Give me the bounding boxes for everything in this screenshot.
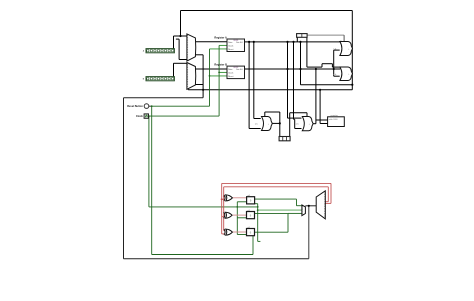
svg-text:addr 0000: addr 0000 — [329, 119, 338, 121]
svg-text:Out 4:0: Out 4:0 — [236, 68, 243, 71]
svg-text:Reset: Reset — [228, 48, 234, 51]
svg-text:Out 4:0: Out 4:0 — [236, 41, 243, 44]
svg-text:Register A: Register A — [214, 36, 227, 39]
svg-text:Reset Button: Reset Button — [127, 105, 143, 108]
svg-text:Register B: Register B — [214, 63, 227, 66]
svg-text:Clock: Clock — [136, 115, 143, 118]
svg-text:Reset: Reset — [228, 75, 234, 78]
